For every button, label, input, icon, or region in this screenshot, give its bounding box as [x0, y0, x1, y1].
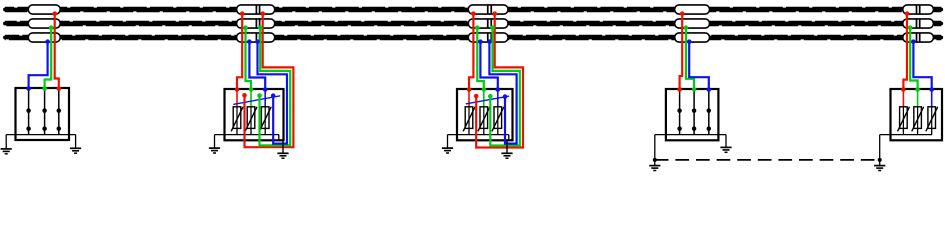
station 1 in-line joint sleeves (3 phases) — [28, 5, 60, 42]
station 5 fuse-switch element at x=903.4 — [898, 90, 909, 135]
station 1 switch pole at x=58.8 — [57, 88, 62, 135]
station 2 earth bus inside box — [215, 135, 279, 141]
station 5 fuse-switch element at x=931.7 — [926, 90, 937, 135]
station 3 earth bus inside box — [448, 135, 509, 141]
station 4 phase L2 drop wire (green) — [684, 25, 697, 91]
station 4 left ground with PE junction — [649, 135, 660, 171]
station 4 phase L3 drop wire (blue) — [687, 39, 711, 91]
station 1 switch pole at x=44.6 — [42, 88, 47, 135]
station 5 phase L3 drop wire (blue) — [911, 39, 934, 91]
station 5 in-line sectionalizing joints with double-bar break (3 phases) — [903, 5, 934, 42]
station 5 phase L2 drop wire (green) — [908, 25, 920, 91]
station 4 switch pole at x=708.8 — [707, 89, 712, 135]
station 5 fuse-switch cabinet box — [891, 89, 943, 140]
station 5 fuse-switch element at x=917.6 — [912, 90, 923, 135]
station 1 switch cabinet box — [16, 88, 70, 140]
station 2 left ground — [209, 135, 220, 153]
station 2 fuse-switch element at x=237 — [231, 90, 242, 135]
station 1 phase L1 drop wire (red) — [52, 11, 61, 91]
station 2 fuse-switch element at x=265.2 — [260, 90, 271, 135]
station 2 switch linkage diagonal (blue) — [234, 96, 280, 104]
station 3 fuse-switch cabinet box — [457, 89, 513, 140]
station 3 fuse-switch element at x=469 — [463, 90, 474, 135]
station 4 switch pole at x=679.6 — [677, 89, 682, 135]
station 5 left ground with PE junction — [874, 135, 885, 171]
station 2 fuse-switch cabinet box — [225, 89, 284, 140]
station 3 left ground — [442, 135, 453, 153]
station 3 outgoing L1 wrap wire (red) — [474, 11, 523, 147]
station 1 phase L2 drop wire (green) — [42, 25, 53, 91]
station 1 phase L3 drop wire (blue) — [26, 39, 50, 91]
station 2 outgoing L3 wrap wire (blue) — [255, 39, 287, 143]
station 2 center ground — [277, 140, 288, 158]
station 4 earth bus inside box — [655, 134, 726, 136]
station 3 outgoing L3 wrap wire (blue) — [487, 39, 516, 143]
station 5 phase L1 drop wire (red) — [901, 11, 909, 91]
station 3 outgoing L2 wrap wire (green) — [488, 25, 520, 145]
station 4 right ground — [720, 135, 731, 153]
station 2 fuse-switch element at x=251 — [245, 90, 256, 135]
station 3 fuse-switch element at x=497.8 — [492, 90, 503, 135]
station 1 earth bus inside box — [6, 134, 75, 136]
station 3 incoming L3 drop (blue) — [478, 39, 500, 91]
station 2 incoming L3 drop (blue) — [247, 39, 267, 91]
station 4 phase L1 drop wire (red) — [677, 11, 684, 91]
station 1 right ground — [70, 135, 81, 154]
station 3 center ground — [501, 140, 512, 158]
station 2 outgoing L1 wrap wire (red) — [242, 11, 293, 147]
station 2 outgoing L2 wrap wire (green) — [257, 25, 290, 145]
dashed PE/earth interconnection line between station 4 and station 5 grounds — [655, 159, 880, 161]
station 2 incoming L2 drop (green) — [243, 25, 253, 91]
station 3 switch linkage diagonal (blue) — [466, 96, 508, 104]
station 3 incoming L1 drop (red) — [467, 11, 476, 91]
station 4 switch pole at x=694.1 — [692, 89, 697, 135]
station 2 incoming L1 drop (red) — [235, 11, 245, 91]
station 4 switch cabinet box — [666, 89, 719, 140]
three-phase overhead feeder bus (L1 L2 L3, each solid with dashed companion conductors) — [5, 8, 941, 40]
station 4 in-line joint sleeves (3 phases) — [675, 5, 710, 42]
station 3 incoming L2 drop (green) — [475, 25, 486, 91]
station 5 earth bus inside box — [880, 134, 932, 136]
station 3 in-line sectionalizing joints with double-bar break (3 phases) — [468, 5, 508, 42]
station 1 switch pole at x=28.6 — [26, 88, 31, 135]
station 2 in-line sectionalizing joints with double-bar break (3 phases) — [237, 5, 275, 42]
station 3 fuse-switch element at x=483.8 — [478, 90, 489, 135]
station 1 left ground — [1, 135, 12, 154]
